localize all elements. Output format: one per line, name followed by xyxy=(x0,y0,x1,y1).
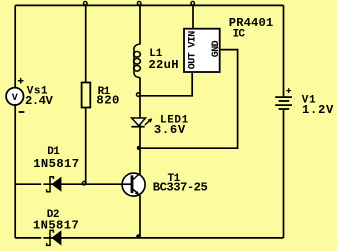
junction top R1 xyxy=(84,1,88,4)
svg-text:V: V xyxy=(12,93,18,104)
diode D1 xyxy=(47,177,62,192)
junction top VIN xyxy=(191,1,195,4)
svg-text:GND: GND xyxy=(211,40,222,57)
wire L1 top lead xyxy=(139,5,141,44)
LED LED1 xyxy=(131,118,152,127)
svg-text:OUT VIN: OUT VIN xyxy=(188,31,199,69)
svg-text:3.6V: 3.6V xyxy=(154,123,186,137)
wire collector lead xyxy=(139,148,141,174)
wire bottom rail xyxy=(15,237,283,239)
wire emitter lead xyxy=(139,196,141,238)
wire L1 bottom / LED lead xyxy=(139,78,141,149)
diode D2 xyxy=(47,230,62,245)
transistor T1 xyxy=(122,173,145,196)
svg-text:1.2V: 1.2V xyxy=(302,103,334,117)
svg-text:820: 820 xyxy=(96,94,119,108)
wire battery top lead xyxy=(283,5,285,96)
junction L1/OUT/LED xyxy=(136,93,140,97)
wire OUT pin xyxy=(140,72,192,96)
junction top L1 xyxy=(137,1,141,4)
resistor R1 xyxy=(82,83,91,108)
svg-text:22uH: 22uH xyxy=(148,58,178,72)
wire left rail xyxy=(14,5,16,238)
svg-text:2.4V: 2.4V xyxy=(25,94,53,108)
junction emitter/bottom xyxy=(136,234,140,238)
junction LED/GND/collector xyxy=(137,146,141,150)
svg-text:1N5817: 1N5817 xyxy=(33,219,79,233)
wire GND pin xyxy=(140,50,238,149)
wire R1 top lead xyxy=(85,5,87,82)
wire VIN pin xyxy=(192,5,194,28)
wire R1 bottom lead xyxy=(85,108,87,185)
voltage source Vs1 xyxy=(6,78,24,112)
junction R1/D1/base xyxy=(82,181,86,185)
wire top rail xyxy=(15,4,283,6)
wire battery bottom lead xyxy=(283,110,285,238)
svg-text:1N5817: 1N5817 xyxy=(33,157,79,171)
battery V1 xyxy=(275,88,292,109)
svg-text:BC337-25: BC337-25 xyxy=(153,181,208,195)
IC U1 PR4401 xyxy=(184,29,222,72)
inductor L1 xyxy=(134,44,141,78)
wire base row (D1 row) xyxy=(15,183,123,185)
svg-text:IC: IC xyxy=(233,29,246,41)
